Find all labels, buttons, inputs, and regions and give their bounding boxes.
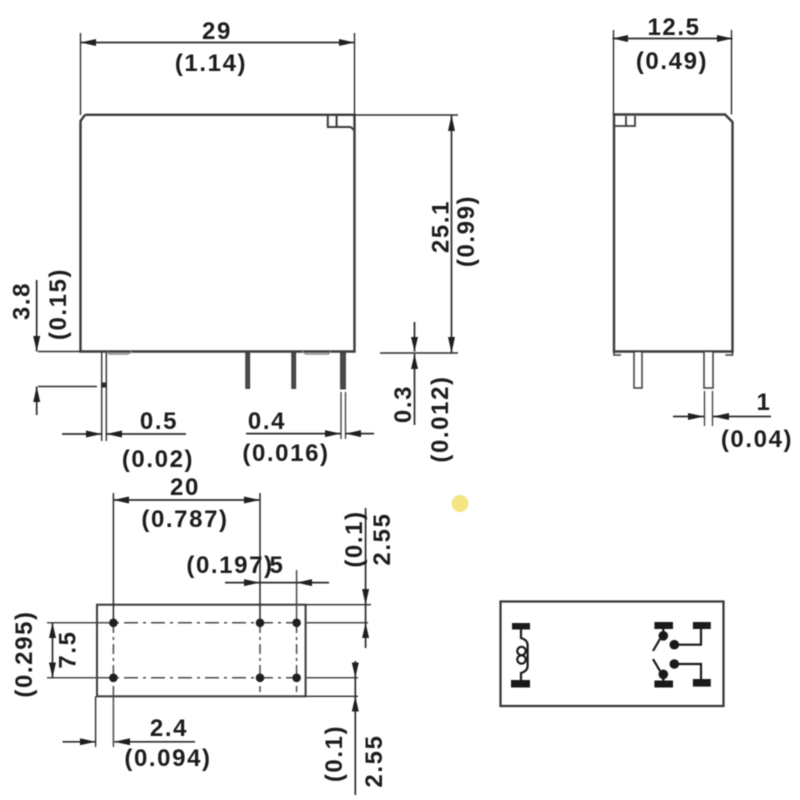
front pin 3 (mid coil) <box>292 353 296 389</box>
svg-text:3.8: 3.8 <box>9 282 36 320</box>
svg-text:2.55: 2.55 <box>361 734 388 787</box>
contact pad bottom-right <box>693 679 711 687</box>
front pin 2 (mid coil) <box>246 353 250 389</box>
centerline column right <box>296 570 298 692</box>
side view bottom corner feet <box>614 352 733 356</box>
svg-text:0.3: 0.3 <box>390 385 417 423</box>
svg-text:(0.1): (0.1) <box>321 725 348 782</box>
svg-text:(1.14): (1.14) <box>175 50 247 77</box>
contact fixed top (to NC) <box>670 629 702 650</box>
svg-text:(0.1): (0.1) <box>341 510 368 567</box>
front pin 4 (right, 0.4mm) <box>341 353 346 439</box>
svg-text:7.5: 7.5 <box>55 630 82 668</box>
svg-text:25.1: 25.1 <box>428 200 455 253</box>
svg-text:12.5: 12.5 <box>647 14 700 41</box>
svg-text:5: 5 <box>270 552 285 579</box>
svg-text:(0.197): (0.197) <box>186 552 273 579</box>
schematic box <box>501 602 724 707</box>
footprint pad dots <box>109 619 301 683</box>
svg-text:(0.787): (0.787) <box>141 506 228 533</box>
front pin 1 (left, 0.5mm) <box>101 352 107 442</box>
contact fixed bottom <box>670 659 702 679</box>
svg-text:(0.49): (0.49) <box>636 48 708 75</box>
coil terminal pad bottom <box>511 680 530 688</box>
svg-text:0.4: 0.4 <box>248 408 286 435</box>
svg-text:(0.04): (0.04) <box>721 426 793 453</box>
front view bottom edge recess right <box>302 352 331 355</box>
footprint rectangle (bottom view) <box>97 605 306 697</box>
dimension 2.55 (0.1) footprint bottom right <box>321 661 388 795</box>
side pin 1 <box>634 352 642 389</box>
dimension 1 (0.04) side pin <box>673 389 793 453</box>
contact arm bottom <box>653 659 668 680</box>
front view relay body <box>81 115 355 352</box>
svg-text:20: 20 <box>170 474 200 501</box>
contact pad bottom-left <box>654 681 673 688</box>
svg-text:(0.094): (0.094) <box>124 745 211 772</box>
dimension 2.55 (0.1) footprint top right <box>306 508 396 648</box>
dimension 5 (0.197) footprint <box>186 552 329 586</box>
yellow marker dot <box>452 495 469 512</box>
dimension 0.4 (0.016) under right pin <box>242 408 374 467</box>
contact pad top-right <box>693 622 711 629</box>
footprint bottom edge right extension <box>306 695 358 697</box>
centerline row bottom <box>47 677 358 679</box>
front view top-right notch <box>328 115 355 131</box>
svg-text:(0.02): (0.02) <box>122 446 194 473</box>
dimension 2.4 (0.094) footprint bottom left <box>63 696 212 772</box>
svg-text:(0.99): (0.99) <box>453 195 480 267</box>
dimension 12.5 (0.49) top of side view <box>613 14 733 115</box>
svg-text:2.4: 2.4 <box>150 715 188 742</box>
dimension 25.1 (0.99) right of front view <box>355 115 481 353</box>
centerline column middle <box>259 493 261 692</box>
side view top-left notch <box>614 116 635 126</box>
coil symbol <box>517 630 527 681</box>
coil terminal pad top <box>512 623 530 630</box>
svg-text:(0.15): (0.15) <box>45 268 72 340</box>
svg-text:(0.012): (0.012) <box>427 375 454 462</box>
side pin 2 (1mm) <box>704 352 713 427</box>
svg-text:29: 29 <box>202 18 232 45</box>
svg-text:2.55: 2.55 <box>369 512 396 565</box>
centerline row top <box>47 622 368 624</box>
svg-text:1: 1 <box>757 389 772 416</box>
dimension 0.5 (0.02) under left pin <box>62 408 194 473</box>
dimension 7.5 (0.295) footprint left <box>11 610 82 697</box>
contact arm top <box>653 629 668 651</box>
dimension 20 (0.787) footprint <box>113 474 260 533</box>
contact pad top-left <box>654 622 673 629</box>
svg-text:(0.295): (0.295) <box>11 610 38 697</box>
centerline column left <box>112 493 114 747</box>
dimension 0.3 (0.012) pin thickness right <box>390 322 454 463</box>
svg-text:(0.016): (0.016) <box>242 440 329 467</box>
dimension 29 (1.14) top <box>81 18 355 115</box>
dimension 3.8 (0.15) left of front view <box>9 268 98 415</box>
side view relay body <box>614 115 733 352</box>
front view bottom edge recess left <box>107 352 132 355</box>
svg-text:0.5: 0.5 <box>140 408 178 435</box>
